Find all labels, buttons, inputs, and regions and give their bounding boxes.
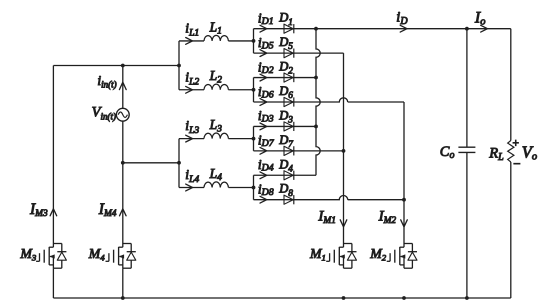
svg-text:iL3: iL3	[185, 118, 199, 136]
diode D6	[284, 97, 294, 106]
label iL3	[185, 118, 199, 136]
label Co	[440, 144, 455, 161]
svg-text:L4: L4	[209, 166, 223, 183]
wire D4 row	[254, 174, 317, 176]
label M2 designator	[369, 246, 387, 262]
wire Co top lead	[466, 29, 468, 148]
svg-text:iD2: iD2	[258, 59, 274, 76]
wire M4 source lead	[122, 268, 124, 298]
label RL	[488, 145, 504, 163]
current arrow IM2	[401, 220, 408, 227]
label Vo	[522, 143, 537, 163]
svg-text:iD4: iD4	[258, 157, 274, 174]
label M1 designator	[309, 246, 326, 262]
svg-text:Co: Co	[440, 144, 455, 161]
wire right rail lower (RL to bottom rail)	[510, 162, 512, 298]
svg-text:iD1: iD1	[258, 11, 274, 28]
label iD6	[258, 84, 274, 101]
transistor M1	[326, 244, 356, 269]
diode D5	[284, 49, 294, 58]
label D6 designator	[278, 84, 293, 101]
wire anode split vertical pair 1	[253, 29, 255, 53]
label iD7	[258, 133, 275, 150]
junction Co tap	[465, 27, 469, 31]
junction Vin top tap	[121, 64, 125, 68]
svg-text:iD5: iD5	[258, 35, 274, 52]
current arrow Io	[481, 25, 488, 32]
junction M1 source / bottom rail	[342, 296, 346, 300]
wire D3 row	[254, 125, 317, 127]
label - polarity	[512, 156, 521, 171]
wire bus C (D6,D8 cathodes to M2 drain)	[403, 102, 405, 244]
svg-text:iL4: iL4	[185, 167, 199, 185]
label + polarity	[512, 137, 520, 149]
svg-text:iD7: iD7	[258, 133, 275, 150]
junction M2 source / bottom rail	[402, 296, 406, 300]
junction bus A / D3 row	[314, 125, 318, 129]
wire D8 row	[254, 196, 405, 200]
current arrow iL4	[186, 184, 193, 191]
diode D8	[284, 195, 294, 204]
junction Vin bottom tap	[121, 161, 125, 165]
svg-text:IM3: IM3	[29, 201, 48, 219]
wire anode split vertical pair 4	[253, 175, 255, 199]
current arrow iD7	[260, 147, 267, 154]
label IM4	[98, 201, 117, 219]
current arrow iL1	[186, 38, 193, 45]
svg-text:Io: Io	[474, 9, 486, 27]
junction L3 split node	[252, 137, 256, 141]
svg-text:iD6: iD6	[258, 84, 274, 101]
svg-text:IM2: IM2	[378, 209, 397, 226]
wire L2 output segment	[228, 89, 253, 91]
diode D2	[284, 73, 294, 82]
inductor L1	[204, 35, 228, 41]
svg-text:iL1: iL1	[185, 21, 199, 39]
wire left rail lower (M3 source to bottom rail)	[52, 268, 54, 298]
wire Vin bottom lead	[122, 121, 124, 163]
wire bus B (D5,D7 cathodes to M1 drain)	[343, 53, 345, 243]
wire L3 input segment	[179, 138, 204, 140]
junction Co / bottom rail	[465, 296, 469, 300]
transistor M3	[36, 244, 66, 269]
svg-text:L2: L2	[209, 68, 223, 85]
junction L4 split node	[252, 186, 256, 190]
resistor RL	[508, 141, 514, 163]
current arrow IM4	[120, 209, 127, 216]
capacitor Co	[458, 147, 475, 152]
label Io	[474, 9, 486, 27]
label IM1	[317, 209, 336, 226]
transistor M2	[387, 244, 417, 269]
svg-text:iD: iD	[396, 10, 408, 27]
svg-text:Vo: Vo	[522, 143, 537, 163]
label M4 designator	[88, 246, 106, 262]
label D5 designator	[278, 35, 293, 52]
label L3 value	[209, 117, 223, 134]
svg-text:IM1: IM1	[317, 209, 336, 226]
label iL2	[185, 69, 199, 87]
wire right rail upper (to RL)	[510, 29, 512, 141]
label D1 designator	[278, 11, 293, 28]
wire D6 row	[254, 98, 405, 102]
diode D3	[284, 122, 294, 131]
wire L1 output segment	[228, 40, 253, 42]
label D4 designator	[278, 157, 293, 174]
label IM2	[378, 209, 397, 226]
label IM3	[29, 201, 48, 219]
inductor L2	[204, 84, 228, 90]
label L4 value	[209, 166, 223, 183]
wire L4 input segment	[179, 186, 204, 188]
current arrow iL2	[186, 86, 193, 93]
current arrow iD3	[260, 123, 267, 130]
diode D1	[284, 24, 294, 33]
label Vin(t)	[92, 105, 116, 122]
junction bus A / D1 row	[314, 27, 318, 31]
wire anode split vertical pair 2	[253, 78, 255, 102]
svg-text:L3: L3	[209, 117, 223, 134]
current arrow iD1	[260, 25, 267, 32]
wire left rail upper (feed to M3 drain)	[52, 66, 54, 244]
svg-text:Vin(t): Vin(t)	[92, 105, 116, 122]
svg-text:M3: M3	[19, 246, 37, 262]
svg-text:iL2: iL2	[185, 69, 199, 87]
current arrow IM1	[340, 220, 347, 227]
wire D7 row	[254, 150, 344, 152]
current arrow iD4	[260, 172, 267, 179]
wire D5 row	[254, 52, 344, 54]
inductor L3	[204, 133, 228, 139]
label iD3	[258, 108, 274, 125]
label D3 designator	[278, 108, 293, 125]
diode D4	[284, 171, 294, 180]
label D7 designator	[278, 133, 293, 150]
wire bottom feed (Vin- to branch node)	[123, 162, 179, 164]
current arrow iD2	[260, 74, 267, 81]
label iD2	[258, 59, 274, 76]
label iL4	[185, 167, 199, 185]
label D2 designator	[278, 60, 293, 77]
junction L1 split node	[252, 39, 256, 43]
current arrow iin(t)	[119, 82, 126, 89]
junction branch node top	[177, 64, 181, 68]
label iL1	[185, 21, 199, 39]
transistor M4	[106, 244, 136, 269]
junction bus C / D8 row	[402, 198, 406, 202]
current arrow iD6	[260, 99, 267, 106]
svg-text:RL: RL	[488, 145, 504, 163]
junction M4 source / bottom rail	[121, 296, 125, 300]
wire M4 drain lead	[122, 163, 124, 244]
svg-text:IM4: IM4	[98, 201, 117, 219]
svg-text:iin(t): iin(t)	[97, 73, 116, 90]
junction L2 split node	[252, 88, 256, 92]
wire output rail (bus A to load)	[316, 28, 511, 30]
wire bottom rail	[53, 297, 510, 299]
diode D7	[284, 146, 294, 155]
label L1 value	[209, 19, 222, 36]
svg-text:M1: M1	[309, 246, 326, 262]
junction branch node bottom	[177, 161, 181, 165]
svg-text:iD8: iD8	[258, 182, 274, 199]
wire branch vertical L3-L4	[178, 139, 180, 188]
wire D2 row	[254, 77, 317, 79]
label D8 designator	[278, 182, 293, 199]
svg-text:+: +	[512, 137, 520, 149]
wire anode split vertical pair 3	[253, 126, 255, 150]
wire bus A (D1-D4 cathodes to output)	[316, 29, 320, 176]
junction bus B / D7 row	[342, 149, 346, 153]
svg-text:M4: M4	[88, 246, 106, 262]
label iin(t)	[97, 73, 116, 90]
wire top feed (Vin+ to branch node)	[53, 65, 179, 67]
label L2 value	[209, 68, 223, 85]
wire branch vertical L1-L2	[178, 41, 180, 90]
source Vin(t)	[116, 108, 129, 121]
current arrow IM3	[50, 209, 57, 216]
label iD8	[258, 182, 274, 199]
label iD4	[258, 157, 274, 174]
current arrow iD	[400, 25, 407, 32]
wire Vin top lead	[122, 66, 124, 109]
current arrow iL3	[186, 135, 193, 142]
label M3 designator	[19, 246, 37, 262]
wire L4 output segment	[228, 186, 253, 188]
inductor L4	[204, 182, 228, 188]
label iD5	[258, 35, 274, 52]
junction bus A / D2 row	[314, 76, 318, 80]
svg-text:L1: L1	[209, 19, 222, 36]
svg-text:−: −	[512, 156, 521, 171]
svg-text:M2: M2	[369, 246, 387, 262]
current arrow iD8	[260, 196, 267, 203]
wire L1 input segment	[179, 40, 204, 42]
wire L3 output segment	[228, 138, 253, 140]
label iD1	[258, 11, 274, 28]
label iD	[396, 10, 408, 27]
wire Co bottom lead	[466, 152, 468, 298]
current arrow iD5	[260, 50, 267, 57]
wire D1 row	[254, 28, 317, 30]
svg-text:iD3: iD3	[258, 108, 274, 125]
wire L2 input segment	[179, 89, 204, 91]
